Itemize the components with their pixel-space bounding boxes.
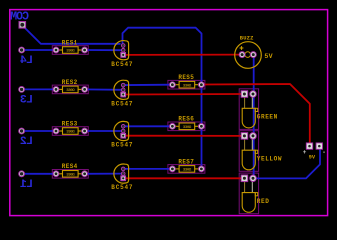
svg-text:9V: 9V — [309, 155, 316, 161]
pad cathode of YELLOW — [250, 133, 257, 140]
pad 1 of buzzer — [239, 52, 245, 58]
pad 1 (collector) of Q4 — [121, 167, 125, 171]
svg-text:BC547: BC547 — [111, 142, 133, 149]
pad 2 of RES3 — [82, 128, 88, 134]
courtyard RES5 — [168, 80, 205, 89]
courtyard RES7 — [168, 165, 205, 174]
wire L2 pad to RES3 (blue) — [22, 130, 56, 132]
pad L1 — [19, 171, 25, 177]
pad L4 — [19, 47, 25, 53]
LED YELLOW lead cathode — [251, 139, 253, 150]
wire Q4 emitter to LED3 anode (red) — [123, 177, 243, 179]
pad 1 of RES3 — [53, 128, 59, 134]
resistor RES2 — [58, 88, 63, 90]
LED GREEN body outline — [242, 108, 255, 128]
svg-text:GREEN: GREEN — [257, 114, 278, 121]
resistor RES1 — [58, 49, 63, 51]
pad 1 (collector) of Q2 — [121, 83, 125, 87]
svg-text:YELLOW: YELLOW — [257, 156, 282, 163]
svg-text:RES2: RES2 — [62, 79, 78, 86]
pad 3 (emitter) of Q1 — [121, 53, 126, 58]
courtyard RES2 — [52, 85, 88, 94]
wire COM pad to Q1 collector (blue) — [24, 27, 120, 44]
transistor Q4 BC547 outline — [114, 164, 129, 183]
svg-text:BC547: BC547 — [111, 184, 133, 191]
svg-text:RES3: RES3 — [62, 120, 78, 127]
pad 2 (base) of Q2 — [121, 88, 125, 92]
svg-text:L2: L2 — [20, 136, 33, 148]
pad 2 of buzzer — [250, 52, 256, 58]
pad 1 (collector) of Q1 — [121, 44, 125, 48]
pad cathode of RED — [250, 175, 257, 182]
svg-text:L1: L1 — [20, 179, 33, 191]
svg-text:330Ω: 330Ω — [183, 169, 192, 173]
pad 2 of RES2 — [82, 87, 88, 93]
LED YELLOW body outline — [242, 150, 255, 170]
resistor RES5 — [174, 84, 179, 86]
buzzer coil symbol — [245, 52, 251, 58]
pad 2 of RES6 — [199, 123, 205, 129]
wire RES1 to Q1 base (blue) — [85, 49, 122, 51]
courtyard RES3 — [52, 127, 88, 136]
pad anode of YELLOW — [241, 133, 248, 140]
pad 2 (base) of Q3 — [121, 129, 125, 133]
wire RED LED cathode to 9V- (blue) — [254, 149, 320, 178]
pad 1 (collector) of Q3 — [121, 125, 125, 129]
pad L2 — [19, 128, 25, 134]
label L1 (mirrored) — [20, 179, 33, 191]
pad 1 of RES4 — [53, 171, 59, 177]
transistor Q3 BC547 outline — [114, 121, 129, 140]
courtyard LED1 — [239, 89, 258, 130]
transistor Q2 BC547 outline — [114, 80, 129, 99]
svg-text:COM: COM — [10, 11, 29, 24]
wire RES3 to Q3 base (blue) — [85, 130, 122, 132]
svg-text:BC547: BC547 — [111, 61, 133, 68]
pad 1 of RES7 — [170, 166, 176, 172]
LED GREEN lead anode — [244, 97, 246, 108]
wire RES4 to Q4 base (blue) — [85, 173, 122, 175]
wire L1 pad to RES4 (blue) — [22, 173, 56, 175]
pad 3 (emitter) of Q4 — [121, 176, 126, 181]
wire Q2 emitter to LED1 anode (red) — [123, 93, 243, 96]
svg-text:330Ω: 330Ω — [66, 131, 75, 135]
wire Q3 emitter to LED2 anode (red) — [123, 135, 243, 137]
svg-text:5V: 5V — [264, 53, 273, 60]
pad 1 of RES6 — [170, 123, 176, 129]
pad COM (square) — [19, 22, 26, 29]
label COM (mirrored) — [10, 11, 29, 24]
svg-text:RES6: RES6 — [178, 116, 194, 123]
LED YELLOW lead anode — [244, 139, 246, 150]
wire Q4 collector to RES7 (blue) — [123, 168, 170, 170]
courtyard RES4 — [52, 170, 88, 179]
LED GREEN flat mark tab — [255, 108, 257, 111]
LED RED lead anode — [244, 181, 246, 192]
wire buzzer- down through LED cathodes (blue) — [253, 55, 255, 179]
pad 2 (base) of Q1 — [121, 48, 125, 52]
LED RED flat mark tab — [255, 193, 257, 196]
resistor RES6 — [174, 125, 179, 127]
svg-text:330Ω: 330Ω — [66, 89, 75, 93]
pad anode of GREEN — [241, 91, 248, 98]
svg-text:+: + — [303, 149, 307, 156]
svg-text:330Ω: 330Ω — [66, 50, 75, 54]
wire RES5 to 9V+ (red) — [202, 84, 310, 144]
wire Q2 collector to RES5 (blue) — [123, 84, 170, 86]
svg-text:RES7: RES7 — [178, 158, 194, 165]
wire Q3 collector to RES6 (blue) — [123, 125, 170, 127]
pad 3 (emitter) of Q3 — [121, 133, 126, 138]
pad + of 9V battery — [306, 143, 312, 149]
svg-text:RES5: RES5 — [178, 74, 194, 81]
pad 2 of RES4 — [82, 171, 88, 177]
transistor Q1 BC547 outline — [114, 41, 129, 60]
buzzer BUZZ outline — [235, 42, 262, 69]
label L3 (mirrored) — [20, 95, 33, 107]
pad 3 (emitter) of Q2 — [121, 92, 126, 97]
svg-text:-: - — [322, 149, 326, 156]
pad 2 of RES5 — [199, 82, 205, 88]
svg-text:RED: RED — [257, 198, 270, 205]
LED RED lead cathode — [251, 181, 253, 192]
courtyard LED3 — [239, 173, 258, 214]
LED RED body outline — [242, 193, 255, 213]
svg-text:RES1: RES1 — [62, 39, 78, 46]
pad 1 of RES2 — [53, 87, 59, 93]
pad 1 of RES1 — [53, 47, 59, 53]
pad - of 9V battery — [316, 143, 322, 149]
svg-text:L3: L3 — [20, 95, 33, 107]
pad 2 (base) of Q4 — [121, 172, 125, 176]
wire L3 pad to RES2 (blue) — [22, 88, 56, 90]
svg-text:330Ω: 330Ω — [66, 173, 75, 177]
wire Q1 emitter to buzzer+ (red) — [123, 54, 240, 56]
svg-text:BUZZ: BUZZ — [240, 36, 254, 42]
svg-text:330Ω: 330Ω — [183, 84, 192, 88]
buzzer plus mark — [240, 47, 244, 49]
label L4 (mirrored) — [20, 55, 33, 67]
pad 2 of RES7 — [199, 166, 205, 172]
svg-text:RES4: RES4 — [62, 163, 78, 170]
pad 1 of RES5 — [170, 82, 176, 88]
pad 2 of RES1 — [82, 47, 88, 53]
resistor RES3 — [58, 130, 63, 132]
svg-text:L4: L4 — [20, 55, 33, 67]
pad anode of RED — [241, 175, 248, 182]
wire L4 pad to RES1 (blue) — [22, 49, 56, 51]
LED YELLOW flat mark tab — [255, 150, 257, 153]
wire Q1 collector over to +9V column (blue) — [123, 28, 202, 169]
pad L3 — [19, 87, 25, 93]
resistor RES4 — [58, 173, 63, 175]
courtyard LED2 — [239, 131, 258, 172]
wire RES2 to Q2 base (blue) — [85, 88, 122, 90]
courtyard RES6 — [168, 122, 205, 131]
pad cathode of GREEN — [250, 91, 257, 98]
label L2 (mirrored) — [20, 136, 33, 148]
resistor RES7 — [174, 168, 179, 170]
svg-text:330Ω: 330Ω — [183, 126, 192, 130]
svg-text:BC547: BC547 — [111, 100, 133, 107]
LED GREEN lead cathode — [251, 97, 253, 108]
courtyard RES1 — [52, 46, 88, 55]
